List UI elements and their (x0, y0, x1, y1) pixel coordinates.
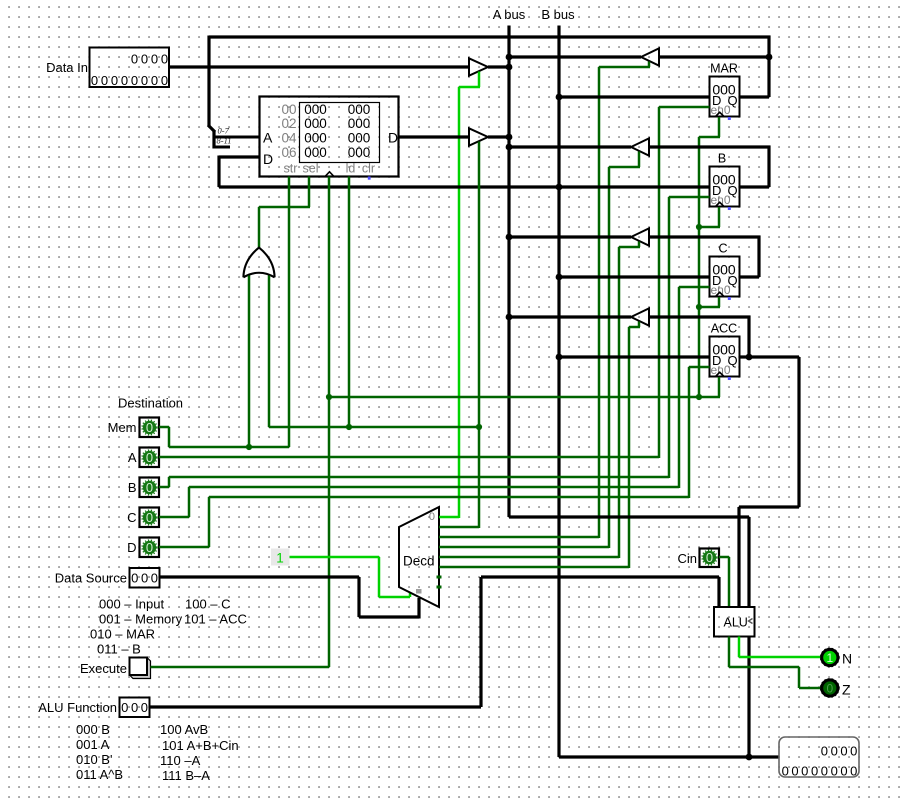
svg-text:02: 02 (281, 116, 296, 131)
wire A bus col 749 to ALU (747, 517, 750, 608)
wire MAR Q to splitter top (209, 35, 771, 38)
svg-text:0: 0 (146, 480, 153, 495)
wire C-read enable stub (638, 242, 641, 248)
input pin Data In (12-bit) (90, 48, 170, 88)
wire D row 497 (209, 496, 689, 499)
wire ACC col 739 to ALU (737, 507, 740, 608)
wire Data Source row 577 (160, 575, 360, 578)
wire splitter feed vertical (207, 36, 210, 127)
svg-text:0: 0 (151, 571, 158, 586)
wire OR input 2 column 269 (268, 276, 271, 428)
wire RAM clock column 329 (328, 177, 331, 668)
svg-text:100 – C: 100 – C (185, 597, 231, 612)
svg-text:0: 0 (151, 52, 158, 67)
wire ACC en column 689 (688, 367, 691, 498)
svg-text:A bus: A bus (493, 7, 526, 22)
wire ACC clock jog (699, 396, 720, 399)
svg-text:0: 0 (429, 511, 435, 523)
svg-text:0: 0 (101, 73, 108, 88)
wire B bus to MAR D (559, 95, 710, 98)
wire decoder out3 (439, 546, 609, 549)
wire MAR Q out (740, 95, 770, 98)
wire Mem stub (159, 426, 169, 429)
svg-text:000 B: 000 B (76, 722, 110, 737)
wire enable column 629 (628, 327, 631, 568)
wire Z row 667 (729, 666, 799, 669)
wire enable column 609 (608, 167, 611, 548)
node A bus row 317 (506, 314, 513, 321)
node col 479 row 427 (476, 424, 482, 430)
probe select value 1 (271, 549, 290, 566)
wire Data Source row 617 (359, 615, 419, 618)
svg-text:ld: ld (346, 162, 356, 176)
svg-text:000: 000 (304, 116, 327, 131)
svg-text:0: 0 (121, 700, 128, 715)
wire buffer out to A bus row 137 (488, 135, 511, 138)
wire ACC row 507 (739, 505, 799, 508)
svg-text:0: 0 (131, 73, 138, 88)
svg-text:sel: sel (303, 162, 319, 176)
svg-text:000: 000 (348, 145, 371, 160)
wire OR out column 259 (258, 207, 261, 248)
wire B-read enable stub (638, 152, 641, 168)
svg-text:000 – Input: 000 – Input (99, 597, 164, 612)
svg-text:011 – B: 011 – B (97, 642, 141, 657)
svg-text:0: 0 (840, 744, 847, 759)
wire Mem row 447 (169, 446, 289, 449)
svg-text:0: 0 (146, 450, 153, 465)
output pin N (822, 649, 838, 665)
node A bus row 137 (506, 134, 513, 141)
svg-text:101 – ACC: 101 – ACC (184, 612, 247, 627)
svg-text:Data Source: Data Source (55, 571, 127, 586)
svg-text:clr: clr (362, 162, 375, 176)
svg-text:010 – MAR: 010 – MAR (90, 627, 155, 642)
wire select row 557 (290, 556, 380, 559)
wire enable column 459 (458, 87, 461, 518)
node B bus row 187 (556, 184, 563, 191)
wire C Q column 759 (757, 236, 760, 278)
RAM memory block (260, 97, 399, 177)
wire ACC en (689, 366, 710, 369)
wire RAM D out to buffer (399, 135, 470, 138)
svg-text:en0: en0 (711, 193, 731, 207)
wire N row 657 (739, 656, 821, 659)
wire A bus row 517 (509, 515, 749, 518)
wire ACC clock stub (718, 377, 721, 397)
node B bus row 357 (556, 354, 563, 361)
wire MAR en column 659 (658, 107, 661, 458)
svg-text:B bus: B bus (541, 7, 575, 22)
wire select stub (409, 593, 412, 597)
wire RAM sel stub (308, 177, 311, 208)
wire select col 419 (417, 598, 420, 619)
node clock col row 397 (696, 394, 702, 400)
wire B Q out (740, 185, 770, 188)
svg-text:B: B (718, 152, 726, 166)
svg-text:0: 0 (146, 510, 153, 525)
wire Data Source col 359 (357, 577, 360, 617)
svg-text:0-7: 0-7 (218, 126, 230, 136)
wire clock column 699 (698, 137, 701, 397)
wire buffer to C Q column (649, 235, 761, 238)
wire RAM Din stub (219, 155, 260, 158)
wire C jog col 189 (188, 487, 191, 517)
svg-text:A: A (263, 130, 273, 146)
node col 349 row 427 (346, 424, 352, 430)
svg-text:Destination: Destination (118, 396, 183, 411)
input pin D (140, 538, 160, 558)
register MAR (710, 77, 740, 117)
wire ALU Z col 729 (728, 637, 731, 668)
svg-text:0: 0 (146, 420, 153, 435)
svg-text:MAR: MAR (710, 62, 738, 76)
wire C-read enable jog (619, 246, 640, 249)
wire ACC-read enable jog (629, 326, 640, 329)
wire Data In to buffer (169, 65, 469, 68)
node clock col 329 row 397 (326, 394, 332, 400)
svg-text:0: 0 (141, 571, 148, 586)
svg-text:000: 000 (304, 102, 327, 117)
wire B bus to C D (559, 275, 710, 278)
wire decoder out5 (439, 566, 629, 569)
node OR in1 row 447 (246, 444, 252, 450)
register B (710, 167, 740, 207)
wire C en (679, 286, 710, 289)
svg-text:1: 1 (826, 651, 833, 665)
node result to B bus row 757 (746, 754, 753, 761)
wire result row 757 (559, 755, 779, 758)
svg-text:D: D (127, 540, 136, 555)
input pin ALU Function (3-bit) (120, 698, 150, 718)
svg-text:0: 0 (131, 52, 138, 67)
svg-text:0: 0 (831, 764, 838, 779)
svg-text:0: 0 (706, 550, 713, 565)
wire buffer to MAR Q column (659, 55, 771, 58)
output pin Z (822, 680, 838, 696)
wire Mem jog col 169 (168, 427, 171, 447)
svg-text:001 A: 001 A (76, 737, 110, 752)
output pin result display (12-bit) (779, 737, 859, 777)
svg-text:Cin: Cin (677, 551, 697, 566)
wire decoder out4 (439, 556, 619, 559)
wire enable jog (459, 86, 480, 89)
svg-text:en0: en0 (711, 283, 731, 297)
svg-text:D: D (388, 130, 398, 146)
wire ALU fn col 719 (717, 577, 720, 608)
wire C en column 679 (678, 287, 681, 488)
svg-text:0: 0 (161, 73, 168, 88)
register C (710, 257, 740, 297)
svg-text:0: 0 (826, 682, 833, 696)
buffer ACC-read (tri-state, left) (631, 308, 649, 325)
svg-text:C: C (127, 510, 136, 525)
wire MAR en (659, 106, 710, 109)
svg-text:0: 0 (782, 764, 789, 779)
buffer MAR-read (tri-state, left) (641, 48, 659, 65)
or gate U1 (north) (243, 248, 274, 278)
svg-text:000: 000 (304, 145, 327, 160)
wire RAM str column 289 (288, 177, 291, 448)
wire select col 379 (378, 557, 381, 597)
svg-text:0: 0 (141, 700, 148, 715)
svg-text:Decd: Decd (403, 554, 435, 569)
wire MAR clock stub (718, 117, 721, 137)
svg-text:en0: en0 (711, 363, 731, 377)
wire D stub (159, 546, 209, 549)
wire ALU result col 749 (747, 637, 750, 758)
wire decoder out1 (439, 526, 479, 529)
wire MAR-read enable stub (648, 62, 651, 68)
wire D jog col 209 (208, 497, 211, 547)
wire Cin col 729 (728, 557, 731, 608)
svg-text:100 AvB: 100 AvB (160, 722, 208, 737)
wire B clock stub (718, 207, 721, 227)
svg-text:C: C (718, 242, 727, 256)
input pin B (140, 478, 160, 498)
svg-text:Data In: Data In (46, 60, 88, 75)
wire B clock jog (699, 226, 720, 229)
wire ALU fn row 577 (481, 575, 719, 578)
node B bus row 277 (556, 274, 563, 281)
splitter 12-bit to 0-7/8-11 (208, 125, 215, 132)
wire RAM Din column 219 (217, 156, 220, 188)
wire ACC col 799 (797, 357, 800, 507)
wire ACC Q out (740, 355, 800, 358)
wire clock row 397 (329, 396, 699, 399)
svg-text:0: 0 (151, 73, 158, 88)
node B bus row 97 (556, 94, 563, 101)
svg-text:000: 000 (304, 131, 327, 146)
wire B jog col 169 (168, 477, 171, 487)
svg-text:000: 000 (348, 102, 371, 117)
svg-text:04: 04 (281, 131, 297, 146)
buffer C-read (tri-state, left) (631, 228, 649, 245)
wire buffer enable stub (478, 72, 481, 88)
wire A bus to buffer row 237 (509, 235, 631, 238)
wire C stub (159, 516, 189, 519)
wire MAR clock jog (699, 136, 720, 139)
wire A row 457 (159, 456, 659, 459)
svg-text:B: B (128, 480, 137, 495)
wire decoder out2 (439, 536, 599, 539)
buffer input-to-Abus (tri-state) (469, 58, 488, 75)
wire MAR Q column 769 (767, 36, 770, 98)
svg-text:1: 1 (276, 551, 284, 566)
svg-text:0: 0 (161, 52, 168, 67)
wire MAR-read enable jog (599, 66, 650, 69)
wire Z row 688 (799, 687, 821, 690)
buffer B-read (tri-state, left) (631, 138, 649, 155)
svg-text:0: 0 (146, 540, 153, 555)
node A bus row 67 (506, 64, 513, 71)
svg-text:8-11: 8-11 (217, 136, 232, 146)
node clock col row 227 (696, 224, 702, 230)
svg-text:110 –A: 110 –A (160, 753, 201, 768)
wire RAM Din / B D row 187 (219, 185, 710, 188)
svg-text:06: 06 (281, 145, 296, 160)
wire OR in2 row 427 (269, 426, 479, 429)
svg-text:0: 0 (811, 764, 818, 779)
wire C Q out (740, 275, 760, 278)
subcircuit ALU (714, 607, 755, 637)
svg-text:0: 0 (831, 744, 838, 759)
wire ALU N col 739 (738, 637, 741, 658)
svg-text:Mem: Mem (108, 420, 137, 435)
wire RAM-read enable column 479 (478, 142, 481, 529)
wire A bus to buffer row 147 (509, 145, 631, 148)
wire B bus vertical (557, 26, 560, 758)
svg-text:Z: Z (842, 682, 851, 698)
svg-text:ACC: ACC (711, 322, 737, 336)
buffer RAM-read (tri-state) (469, 128, 488, 145)
svg-text:000: 000 (348, 131, 371, 146)
svg-text:0: 0 (121, 73, 128, 88)
svg-text:0: 0 (840, 764, 847, 779)
svg-text:0: 0 (131, 700, 138, 715)
node A bus row 57 (506, 54, 513, 61)
svg-text:010 B': 010 B' (76, 752, 112, 767)
wire select row 597 (379, 596, 410, 599)
svg-text:0: 0 (850, 744, 857, 759)
svg-text:0: 0 (91, 73, 98, 88)
svg-text:0: 0 (791, 764, 798, 779)
input pin Mem (140, 418, 160, 438)
wire C row 487 (189, 486, 679, 489)
svg-text:A: A (128, 450, 137, 465)
svg-text:0: 0 (111, 73, 118, 88)
svg-text:N: N (842, 651, 852, 667)
node A bus row 237 (506, 234, 513, 241)
wire C clock jog (699, 306, 720, 309)
wire ACC-read enable stub (638, 322, 641, 328)
wire ALU fn col 481 (479, 577, 482, 707)
svg-text:101 A+B+Cin: 101 A+B+Cin (162, 738, 239, 753)
svg-text:001 – Memory: 001 – Memory (99, 612, 183, 627)
wire sel jog row 207 (259, 206, 310, 209)
svg-text:0: 0 (821, 764, 828, 779)
svg-text:0: 0 (141, 73, 148, 88)
svg-text:000: 000 (348, 116, 371, 131)
svg-text:0: 0 (801, 764, 808, 779)
svg-text:Execute: Execute (80, 661, 127, 676)
svg-text:00: 00 (281, 102, 296, 117)
input pin A (140, 448, 160, 468)
svg-text:str: str (284, 162, 298, 176)
wire A bus vertical (507, 26, 510, 518)
wire A bus to buffer row 57 (509, 55, 641, 58)
svg-text:011 A^B: 011 A^B (76, 767, 123, 782)
wire OR input 1 column 249 (248, 276, 251, 448)
input pin Cin (700, 549, 720, 568)
node ACC Q junction (746, 354, 753, 361)
wire B en column 669 (668, 197, 671, 478)
wire B Q column 769 (767, 146, 770, 188)
svg-text:0: 0 (131, 571, 138, 586)
svg-text:0: 0 (821, 744, 828, 759)
wire B en (669, 196, 710, 199)
svg-text:0: 0 (141, 52, 148, 67)
wire Cin stub (719, 556, 729, 559)
wire decoder out0 (439, 516, 459, 519)
node clock col row 307 (696, 304, 702, 310)
svg-text:0: 0 (850, 764, 857, 779)
input pin C (140, 508, 160, 528)
wire Execute clock row 667 (151, 666, 330, 669)
svg-text:ALU: ALU (724, 616, 748, 630)
wire RAM ld column 349 (348, 177, 351, 428)
wire enable column 619 (618, 247, 621, 558)
wire buffer to ACC Q column (649, 315, 751, 318)
decoder Decd (399, 507, 439, 607)
wire B-read enable jog (609, 166, 640, 169)
wire ALU fn row 707 (150, 705, 482, 708)
wire B stub (159, 486, 169, 489)
wire enable column 599 (598, 67, 601, 538)
svg-text:D: D (263, 151, 273, 167)
wire B row 477 (169, 476, 669, 479)
input pin Data Source (3-bit) (130, 568, 160, 588)
svg-text:ALU Function: ALU Function (38, 700, 117, 715)
wire buffer to B Q column (649, 145, 771, 148)
wire buffer out to A bus (488, 65, 511, 68)
svg-text:111 B–A: 111 B–A (162, 768, 210, 783)
wire Z col 799 (798, 667, 801, 688)
wire B bus to ACC D (559, 355, 710, 358)
node A bus row 147 (506, 144, 513, 151)
wire ACC Q column 749 (747, 316, 750, 358)
wire A bus to buffer row 317 (509, 315, 631, 318)
wire C clock stub (718, 297, 721, 307)
node col 769 row 57 (766, 54, 773, 61)
button Execute (130, 658, 151, 679)
register ACC (710, 337, 740, 377)
svg-text:en0: en0 (711, 103, 731, 117)
